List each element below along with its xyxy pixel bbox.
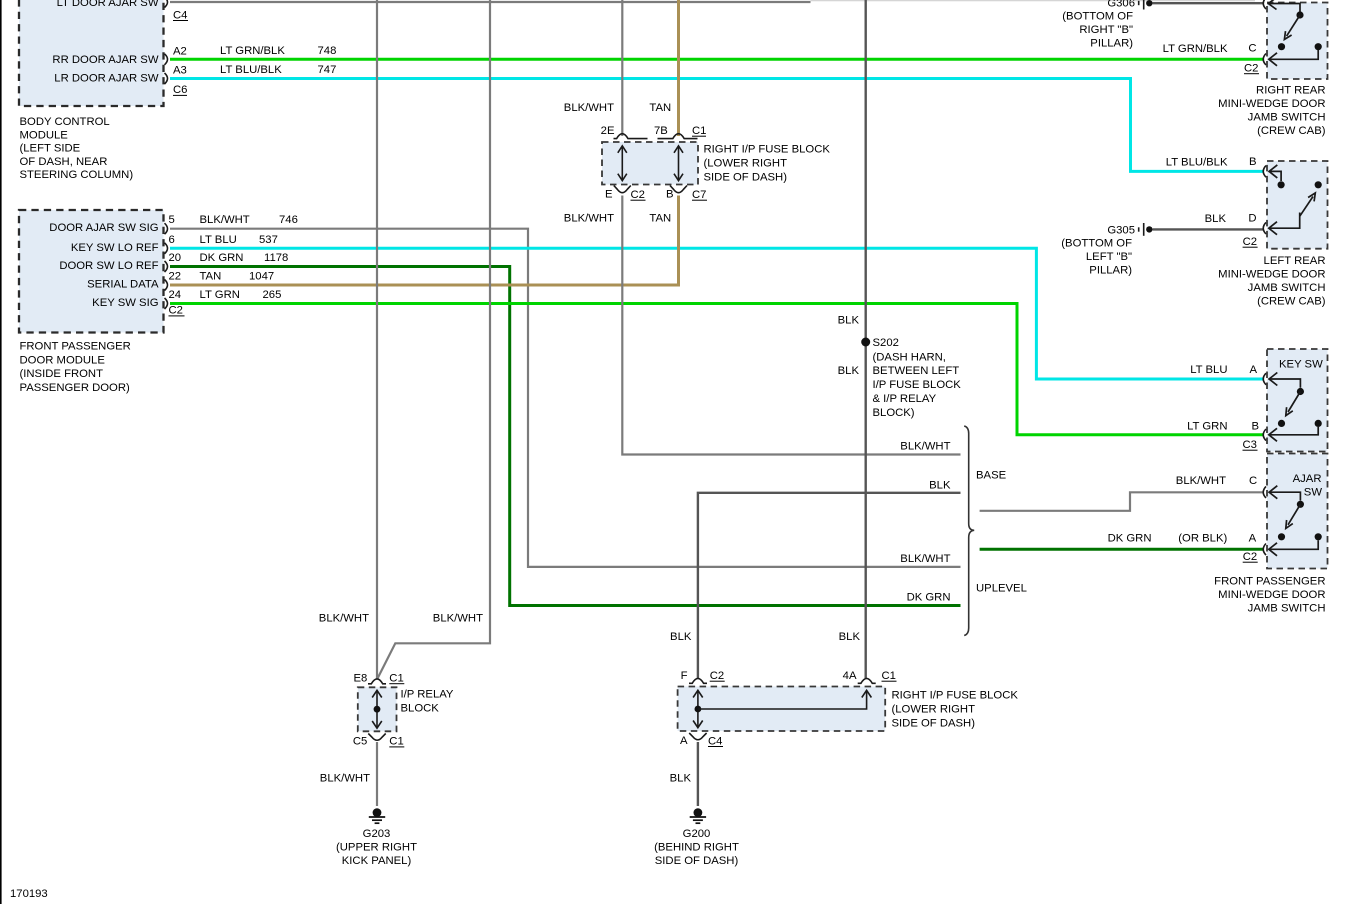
AJAR SW internals [1263,486,1322,556]
svg-text:LEFT "B": LEFT "B" [1086,251,1132,263]
svg-text:KEY SW SIG: KEY SW SIG [92,297,158,309]
svg-text:BLK: BLK [670,773,692,785]
svg-text:20: 20 [169,252,182,264]
svg-text:DK GRN: DK GRN [907,592,951,604]
labels LT GRN / B at KEY SW [1187,420,1259,432]
FPDM pin 6 arc [165,234,175,254]
svg-text:(LOWER RIGHT: (LOWER RIGHT [704,158,788,170]
switch: LEFT REAR MINI-WEDGE DOOR JAMB SWITCH box [1267,161,1328,249]
svg-text:TAN: TAN [649,213,671,225]
svg-text:G306: G306 [1107,0,1135,10]
svg-text:BLK/WHT: BLK/WHT [900,553,950,565]
svg-text:6: 6 [169,234,175,246]
svg-text:1178: 1178 [264,252,288,264]
svg-text:170193: 170193 [10,888,48,900]
svg-text:BLK: BLK [670,631,692,643]
svg-text:KEY SW LO REF: KEY SW LO REF [71,242,159,254]
svg-text:BLK/WHT: BLK/WHT [433,613,483,625]
ground G203 symbol [369,808,385,823]
svg-text:2E: 2E [601,125,615,137]
svg-text:A3: A3 [173,64,187,76]
BCM description text [20,116,134,181]
svg-text:LT GRN/BLK: LT GRN/BLK [1163,43,1228,55]
svg-text:JAMB SWITCH: JAMB SWITCH [1248,603,1326,615]
wire: DK GRN (OR BLK) from brace to AJAR SW pin A [980,532,1263,549]
svg-text:22: 22 [169,271,182,283]
svg-text:C3: C3 [1243,439,1257,451]
svg-text:BETWEEN LEFT: BETWEEN LEFT [873,365,960,377]
fuse block: RIGHT I/P FUSE BLOCK (lower) box [678,687,886,732]
svg-text:BLK: BLK [929,480,951,492]
fuse block: RIGHT I/P FUSE BLOCK (upper) box [602,142,698,185]
svg-text:C2: C2 [710,670,724,682]
svg-text:E: E [605,189,613,201]
svg-text:BASE: BASE [976,470,1007,482]
svg-text:BLK/WHT: BLK/WHT [319,613,369,625]
svg-text:265: 265 [263,289,282,301]
svg-text:KICK PANEL): KICK PANEL) [342,855,412,867]
BCM pin A3 arc [165,64,187,84]
svg-text:BLK/WHT: BLK/WHT [564,213,614,225]
svg-text:24: 24 [169,289,182,301]
svg-text:DOOR MODULE: DOOR MODULE [20,354,106,366]
svg-text:B: B [1249,156,1257,168]
relay block pin C5 cup and labels [353,734,404,748]
svg-text:747: 747 [318,64,337,76]
svg-text:TAN: TAN [200,271,222,283]
svg-text:C1: C1 [389,673,403,685]
svg-text:A2: A2 [173,46,187,58]
svg-text:LT BLU: LT BLU [1190,364,1227,376]
wire: BLK/WHT 746 from FPDM pin 5 to UPLEVEL brace [170,214,961,567]
wire: LT GRN/BLK 748 from BCM A2 to right rear jamb switch [170,45,1263,59]
wire: LT DOOR AJAR SW top (gray, cut by top edge) [170,1,811,3]
left rear switch pin B / D / C2 labels [1243,156,1258,248]
svg-text:(DASH HARN,: (DASH HARN, [873,351,946,363]
svg-text:MINI-WEDGE DOOR: MINI-WEDGE DOOR [1218,98,1325,110]
svg-text:C1: C1 [692,125,706,137]
fuse block name text [704,144,831,184]
svg-text:PILLAR): PILLAR) [1089,264,1132,276]
labels LT BLU / A at KEY SW [1190,364,1257,376]
left rear switch internals [1263,165,1322,235]
svg-text:BLK: BLK [1205,213,1227,225]
svg-text:LT BLU/BLK: LT BLU/BLK [1166,157,1228,169]
svg-text:LT GRN: LT GRN [200,289,240,301]
ground G200 text [654,828,739,867]
svg-text:BLK/WHT: BLK/WHT [200,214,250,226]
lower fuse block pin F bump and labels [681,670,725,683]
wire: BLK vertical through splice S202 to lower fuse block pin 4A [865,0,867,678]
splice S202 text [873,337,962,419]
right rear switch internals [1263,0,1322,66]
BCM pin A2 arc [165,46,187,65]
svg-text:FRONT PASSENGER: FRONT PASSENGER [20,340,131,352]
page border left edge [0,0,2,904]
front passenger switch description [1214,576,1325,615]
svg-text:JAMB SWITCH: JAMB SWITCH [1248,282,1326,294]
svg-text:RR DOOR AJAR SW: RR DOOR AJAR SW [52,54,158,66]
svg-text:RIGHT REAR: RIGHT REAR [1256,85,1325,97]
svg-text:C2: C2 [169,305,183,317]
FPDM description text [20,340,131,394]
AJAR SW connector C2 label [1243,551,1258,563]
svg-text:BLK/WHT: BLK/WHT [564,102,614,114]
svg-text:LT DOOR AJAR SW: LT DOOR AJAR SW [57,0,159,9]
relay block internal arrow with splice dot [372,690,382,728]
svg-text:LT BLU/BLK: LT BLU/BLK [220,64,282,76]
svg-text:BLK: BLK [838,315,860,327]
wire: LT BLU 537 from FPDM pin 6 to KEY SW pin A [170,234,1263,379]
svg-text:BLOCK): BLOCK) [873,407,915,419]
svg-text:DK GRN: DK GRN [1108,532,1152,544]
relay block name [401,689,454,715]
svg-text:B: B [666,189,674,201]
wire: BLK from BASE brace down to lower fuse block pin F [698,493,961,678]
svg-text:OF DASH, NEAR: OF DASH, NEAR [20,156,108,168]
svg-text:I/P FUSE BLOCK: I/P FUSE BLOCK [873,379,962,391]
svg-text:A: A [680,735,688,747]
module: FRONT PASSENGER DOOR MODULE (box) [19,210,164,333]
svg-text:SW: SW [1304,486,1323,498]
svg-text:I/P RELAY: I/P RELAY [401,689,454,701]
svg-text:DOOR AJAR SW SIG: DOOR AJAR SW SIG [49,222,158,234]
svg-text:LT GRN/BLK: LT GRN/BLK [220,45,285,57]
svg-text:C1: C1 [882,670,896,682]
svg-text:C: C [1248,43,1256,55]
FPDM pin 24 arc [165,289,182,309]
svg-text:C2: C2 [1243,236,1257,248]
svg-text:BLK/WHT: BLK/WHT [900,441,950,453]
svg-text:C2: C2 [1243,551,1257,563]
lower fuse block internal arrows and bus [693,690,871,727]
svg-text:(CREW CAB): (CREW CAB) [1257,295,1326,307]
BCM connector C6 label [173,84,187,96]
svg-text:(BOTTOM OF: (BOTTOM OF [1061,237,1132,249]
svg-text:C1: C1 [389,736,403,748]
FPDM pin 20 arc [165,252,182,272]
svg-text:G305: G305 [1107,224,1135,236]
svg-text:LR DOOR AJAR SW: LR DOOR AJAR SW [54,73,159,85]
fuse block internal arrow at 7B/B [674,146,683,181]
svg-text:TAN: TAN [649,102,671,114]
svg-text:SERIAL DATA: SERIAL DATA [87,279,159,291]
switch: FRONT PASSENGER AJAR SW box [1267,454,1328,569]
right rear switch description [1218,85,1326,138]
svg-text:& I/P RELAY: & I/P RELAY [873,393,937,405]
FPDM connector C2 label [169,305,185,317]
svg-text:UPLEVEL: UPLEVEL [976,583,1027,595]
wire: TAN vertical above fuse block pin 7B (from top edge) [677,0,680,136]
svg-text:SIDE OF DASH): SIDE OF DASH) [892,717,976,729]
svg-text:F: F [681,670,688,682]
ground G306 (bottom of right B pillar, cut at top) [1062,0,1263,50]
module: BODY CONTROL MODULE (box, top cut off) [19,0,164,106]
ground G203 text [336,828,417,867]
svg-text:PASSENGER DOOR): PASSENGER DOOR) [20,382,131,394]
wire: DK GRN 1178 from FPDM pin 20 to UPLEVEL brace [170,252,961,606]
lower fuse block pin 4A bump and labels [843,670,897,683]
wire: BLK/WHT vertical from top edge, jog to relay block E8 [378,0,491,679]
svg-text:(LOWER RIGHT: (LOWER RIGHT [892,703,976,715]
wire: LT GRN 265 from FPDM pin 24 to KEY SW pin B [170,289,1263,435]
svg-text:RIGHT "B": RIGHT "B" [1079,24,1133,36]
svg-text:D: D [1248,213,1256,225]
relay block: I/P RELAY BLOCK box [358,687,397,731]
svg-text:(UPPER RIGHT: (UPPER RIGHT [336,842,417,854]
wire: TAN 1047 from FPDM pin 22 up to fuse block pin B [170,196,679,286]
svg-text:JAMB SWITCH: JAMB SWITCH [1248,112,1326,124]
svg-text:7B: 7B [654,125,668,137]
svg-text:DK GRN: DK GRN [200,252,244,264]
svg-text:746: 746 [279,214,298,226]
wire: BLK from fuse block C4 to ground G200 [670,742,698,806]
svg-text:SIDE OF DASH): SIDE OF DASH) [704,172,788,184]
svg-text:C6: C6 [173,84,187,96]
svg-text:4A: 4A [843,670,857,682]
svg-text:BODY CONTROL: BODY CONTROL [20,116,110,128]
svg-text:MINI-WEDGE DOOR: MINI-WEDGE DOOR [1218,589,1325,601]
svg-text:LEFT REAR: LEFT REAR [1264,255,1326,267]
wire: BLK/WHT from brace to AJAR SW pin C [980,475,1263,511]
svg-text:(CREW CAB): (CREW CAB) [1257,125,1326,137]
svg-text:(INSIDE FRONT: (INSIDE FRONT [20,368,104,380]
svg-text:E8: E8 [353,672,367,684]
svg-text:A: A [1250,364,1258,376]
fuse block internal arrow at 2E/E [618,146,627,181]
svg-text:A: A [1249,532,1257,544]
ground G200 symbol [690,808,706,823]
svg-text:DOOR SW LO REF: DOOR SW LO REF [59,260,158,272]
svg-text:MODULE: MODULE [20,129,69,141]
svg-text:S202: S202 [873,337,899,349]
svg-text:KEY SW: KEY SW [1279,359,1323,371]
BCM connector C4 pin arc [165,0,189,21]
relay block pin E8 bump and labels [353,672,404,684]
svg-text:537: 537 [259,234,278,246]
wire: LT BLU/BLK 747 from BCM A3 to left rear jamb switch [170,64,1263,171]
left rear switch description [1218,255,1326,308]
fuse block upper connector C1 line with pin bumps 2E and 7B [601,125,707,139]
svg-text:AJAR: AJAR [1293,473,1322,485]
lower fuse block pin A cup and labels [680,733,723,747]
svg-text:BLK: BLK [839,631,861,643]
faint cropped wire continuation at top edge [811,0,1256,2]
svg-text:STEERING COLUMN): STEERING COLUMN) [20,169,134,181]
label AJAR SW [1293,473,1323,499]
svg-text:C2: C2 [1244,63,1258,75]
splice S202 dot [861,338,870,347]
svg-text:LT GRN: LT GRN [1187,420,1227,432]
svg-text:G203: G203 [363,828,391,840]
svg-text:LT BLU: LT BLU [200,234,237,246]
svg-text:RIGHT I/P FUSE BLOCK: RIGHT I/P FUSE BLOCK [704,144,831,156]
lower fuse block name [892,689,1019,729]
FPDM pin 22 arc [165,271,182,291]
svg-text:BLOCK: BLOCK [401,703,440,715]
svg-text:BLK/WHT: BLK/WHT [1176,475,1226,487]
svg-text:748: 748 [318,45,337,57]
svg-text:BLK/WHT: BLK/WHT [320,773,370,785]
svg-text:MINI-WEDGE DOOR: MINI-WEDGE DOOR [1218,268,1325,280]
svg-text:C5: C5 [353,736,367,748]
svg-text:(LEFT SIDE: (LEFT SIDE [20,143,81,155]
wire: BLK/WHT vertical above fuse block pin 2E (from top edge) [621,0,623,136]
wire: BLK/WHT from fuse block pin E down to BASE brace [622,196,960,455]
svg-text:G200: G200 [683,828,711,840]
svg-text:(BEHIND RIGHT: (BEHIND RIGHT [654,842,739,854]
svg-text:B: B [1252,420,1260,432]
right rear switch pin C / C2 labels [1244,43,1259,75]
svg-text:C7: C7 [692,189,706,201]
svg-text:BLK: BLK [838,365,860,377]
ground G305 (bottom of left B pillar) [1061,223,1263,276]
svg-text:C4: C4 [173,9,187,21]
svg-text:(OR BLK): (OR BLK) [1178,532,1227,544]
switch: FRONT PASSENGER KEY SW box [1267,349,1328,452]
wire: BLK/WHT from relay block C5 to ground G203 [320,742,377,806]
svg-text:C2: C2 [631,189,645,201]
switch: RIGHT REAR MINI-WEDGE DOOR JAMB SWITCH box [1267,3,1328,80]
svg-text:C: C [1249,475,1257,487]
svg-text:(BOTTOM OF: (BOTTOM OF [1062,11,1133,23]
brace grouping BASE/UPLEVEL wires [964,426,974,636]
svg-text:FRONT PASSENGER: FRONT PASSENGER [1214,576,1325,588]
svg-text:SIDE OF DASH): SIDE OF DASH) [655,855,739,867]
svg-text:PILLAR): PILLAR) [1090,38,1133,50]
svg-text:C4: C4 [708,735,722,747]
fuse block lower pin E cup [605,186,646,202]
wire: BLK/WHT vertical from top edge to I/P relay block E8 [376,0,378,679]
svg-text:5: 5 [169,214,175,226]
svg-text:1047: 1047 [249,271,274,283]
KEY SW internals [1263,373,1322,442]
FPDM pin 5 arc [165,214,175,234]
KEY SW connector C3 label [1243,439,1258,451]
svg-text:RIGHT I/P FUSE BLOCK: RIGHT I/P FUSE BLOCK [892,689,1019,701]
fuse block lower pin B cup [666,186,707,202]
